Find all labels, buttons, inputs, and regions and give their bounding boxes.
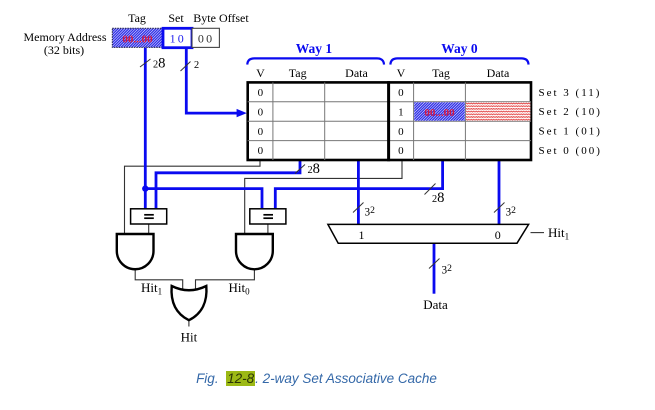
slash 28 on way1 tag wire: [295, 161, 320, 177]
wire: left comparator output to left AND gate (black): [148, 224, 150, 234]
svg-text:Hit: Hit: [181, 330, 198, 345]
brace Way 1: [247, 58, 384, 64]
table col line V/Tag way1: [272, 82, 274, 160]
slash 28 on way0 tag wire: [425, 184, 445, 207]
memory address Tag field box (hatched): [112, 28, 163, 47]
svg-text:0: 0: [398, 145, 404, 157]
svg-text:Hit0: Hit0: [229, 280, 251, 297]
memory address Byte Offset field box: [192, 28, 219, 47]
svg-text:Hit1: Hit1: [548, 225, 569, 242]
svg-text:32: 32: [365, 205, 376, 219]
wire: right comparator output to right AND gate (black): [267, 224, 269, 234]
svg-text:0: 0: [258, 126, 264, 138]
svg-text:Data: Data: [487, 66, 510, 80]
svg-text:Memory Address: Memory Address: [24, 30, 107, 44]
mux trapezoid: [328, 224, 529, 243]
slash 2 on set wire: [181, 60, 200, 71]
svg-text:Hit1: Hit1: [141, 280, 162, 297]
wire: Way0 Tag column to right comparator (blue): [275, 160, 442, 208]
wire: Way1 Data column to mux input 1 (blue): [357, 160, 360, 224]
svg-text:0: 0: [258, 106, 264, 118]
svg-text:Set: Set: [168, 11, 184, 25]
cache table outer border: [248, 82, 531, 160]
svg-text:28: 28: [153, 56, 165, 72]
svg-text:28: 28: [432, 190, 444, 206]
svg-text:0: 0: [258, 87, 264, 99]
set row labels: [539, 87, 602, 157]
svg-text:Way 1: Way 1: [296, 41, 333, 56]
OR gate: [172, 286, 207, 320]
svg-text:Set 0 (00): Set 0 (00): [539, 145, 602, 157]
way0 set2 Data cell red pattern: [466, 102, 530, 120]
table col line Tag/Data way1: [324, 82, 326, 160]
table divider between ways (thick): [387, 81, 390, 161]
wire: mux output Data (blue): [433, 243, 436, 294]
svg-text:Data: Data: [423, 297, 448, 312]
AND gate right: [236, 234, 273, 269]
svg-text:V: V: [397, 66, 406, 80]
table col line Tag/Data way0: [464, 82, 466, 160]
wire: right AND output to OR gate input (black): [196, 269, 255, 288]
memory address Set field box: [163, 28, 192, 47]
svg-text:32: 32: [442, 263, 453, 277]
table col line V/Tag way0: [413, 82, 415, 160]
table row line 2: [248, 120, 531, 122]
wire: Way0 Data column to mux input 0 (blue): [498, 160, 501, 224]
brace Way 0: [390, 58, 528, 64]
arrowhead into table: [237, 109, 247, 117]
svg-text:Way 0: Way 0: [441, 41, 478, 56]
svg-text:Tag: Tag: [289, 66, 307, 80]
svg-text:2: 2: [194, 60, 199, 71]
svg-text:0: 0: [398, 126, 404, 138]
svg-text:1: 1: [359, 228, 365, 242]
junction node on Tag wire: [142, 185, 148, 191]
svg-text:Set 3 (11): Set 3 (11): [539, 87, 602, 99]
svg-text:V: V: [256, 66, 265, 80]
svg-text:Set 2 (10): Set 2 (10): [539, 106, 602, 118]
svg-text:10: 10: [170, 32, 186, 46]
valid bits way0: [398, 87, 404, 157]
svg-text:0: 0: [398, 87, 404, 99]
slash 32 on way1 data wire: [353, 203, 375, 219]
wire: mux output to Hit1 label (black): [531, 232, 545, 234]
svg-text:00...00: 00...00: [122, 34, 153, 46]
comparator U2 (right, =): [250, 209, 286, 224]
AND gate left: [117, 234, 154, 269]
valid bits way1: [258, 87, 264, 157]
table row line 3: [248, 140, 531, 142]
svg-text:Data: Data: [345, 66, 368, 80]
slash 32 on mux output: [429, 259, 452, 277]
svg-text:28: 28: [308, 161, 320, 177]
slash 28 on address tag wire: [140, 56, 165, 72]
svg-text:0: 0: [495, 228, 501, 242]
svg-text:Tag: Tag: [128, 11, 146, 25]
wire: Way0 V column to right AND gate (black): [245, 160, 402, 234]
table row line 1: [248, 101, 531, 103]
comparator U1 (left, =): [131, 209, 167, 224]
svg-text:00: 00: [198, 32, 214, 46]
svg-text:0: 0: [258, 145, 264, 157]
figure caption: [0, 371, 644, 386]
svg-text:Tag: Tag: [432, 66, 450, 80]
wire: OR gate output stub (black): [188, 320, 190, 326]
wire: Way1 Tag column to left comparator (blue): [156, 160, 300, 208]
wire: address Set to cache table row (blue, arrow): [186, 48, 238, 113]
way0 set2 Tag cell hatched with 00...00: [414, 102, 465, 120]
svg-text:32: 32: [506, 205, 517, 219]
svg-text:(32 bits): (32 bits): [44, 43, 84, 57]
wire: address Tag to comparators (blue): [144, 48, 147, 208]
svg-text:00...00: 00...00: [424, 107, 455, 119]
svg-text:Byte Offset: Byte Offset: [193, 11, 249, 25]
wire: Way1 V column to left AND gate (black): [125, 160, 261, 234]
wire: left AND output to OR gate input (black): [135, 269, 183, 288]
svg-text:1: 1: [398, 106, 404, 118]
svg-text:Set 1 (01): Set 1 (01): [539, 126, 602, 138]
slash 32 on way0 data wire: [494, 203, 516, 219]
